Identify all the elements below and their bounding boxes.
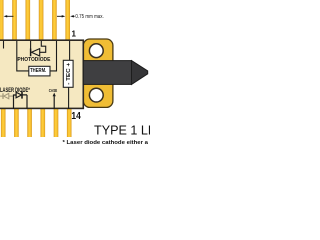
wire ghost to shared node bbox=[9, 95, 14, 97]
mounting flange with holes bbox=[83, 39, 113, 107]
pin 6 top lead bbox=[0, 0, 3, 41]
laser diode D1 cathode bar bbox=[21, 91, 23, 98]
pin 12 bottom lead bbox=[41, 108, 46, 137]
pin 13 bottom lead bbox=[54, 108, 59, 137]
pin 3 top lead bbox=[39, 0, 44, 41]
pin 4 top lead bbox=[26, 0, 31, 41]
wire TEC- to pin14 bbox=[68, 87, 70, 109]
mounting hole bottom bbox=[89, 88, 103, 102]
wire pin1 to TEC+ bbox=[69, 41, 71, 60]
wire pin6 stub bbox=[3, 41, 5, 49]
dim arrow pin6 width bbox=[7, 15, 14, 17]
svg-text:14: 14 bbox=[71, 111, 81, 122]
pin 14 bottom lead bbox=[67, 108, 72, 137]
wire laser diode anode to pin10 bbox=[14, 95, 16, 109]
thermistor box bbox=[29, 66, 50, 76]
mounting hole top bbox=[89, 44, 103, 58]
wire photodiode anode to pin3 bbox=[40, 41, 46, 52]
pin 10 bottom lead bbox=[14, 108, 19, 137]
dim arrowhead left bbox=[4, 15, 8, 17]
dim arrow pin1 right bbox=[73, 15, 75, 17]
wire pin2 to thermistor right bbox=[50, 41, 57, 71]
photodiode D2 cathode bar bbox=[30, 49, 32, 57]
svg-text:* Laser diode cathode either a: * Laser diode cathode either a bbox=[63, 140, 149, 146]
case arrow wire bbox=[53, 95, 55, 109]
dim arrowhead pointing right bbox=[62, 15, 66, 17]
snout nose cone bbox=[132, 61, 148, 85]
svg-text:CASE: CASE bbox=[49, 88, 58, 94]
svg-text:THERM.: THERM. bbox=[30, 68, 47, 74]
laser diode alternate (ghost) triangle bbox=[4, 93, 9, 98]
pin 11 bottom lead bbox=[27, 108, 32, 137]
photodiode D2 triangle bbox=[32, 49, 40, 56]
wire pin5 to thermistor left bbox=[17, 41, 29, 71]
svg-text:TYPE 1 LD: TYPE 1 LD bbox=[94, 124, 150, 138]
pin 5 top lead bbox=[12, 0, 17, 41]
wire ghost anode left bbox=[0, 95, 3, 97]
pin 1 top lead bbox=[65, 0, 70, 41]
wire pin4 to photodiode cathode bbox=[30, 41, 32, 49]
svg-text:1: 1 bbox=[72, 30, 77, 39]
dim arrowhead pointing left bbox=[70, 15, 74, 17]
laser diode alternate (ghost) cathode bar bbox=[2, 93, 4, 99]
svg-text:0.75 mm max.: 0.75 mm max. bbox=[75, 14, 103, 20]
TEC module box bbox=[63, 60, 73, 87]
dim arrow pin1 left bbox=[57, 15, 63, 17]
wire laser diode cathode to pin11 bbox=[22, 95, 27, 109]
package body bbox=[0, 40, 83, 108]
snout barrel bbox=[83, 61, 131, 85]
pin 2 top lead bbox=[52, 0, 57, 41]
svg-text:LASER DIODE*: LASER DIODE* bbox=[0, 88, 30, 94]
case arrowhead bbox=[53, 93, 56, 97]
pin 9 bottom lead bbox=[1, 108, 6, 137]
laser diode D1 triangle bbox=[16, 92, 21, 98]
svg-text:- TEC +: - TEC + bbox=[66, 63, 72, 85]
svg-text:PHOTODIODE: PHOTODIODE bbox=[17, 57, 50, 63]
